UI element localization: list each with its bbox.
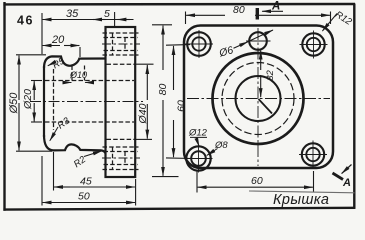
dimension 60 (bottom of face view) <box>197 171 314 193</box>
dimension dia20 (bore) <box>31 81 42 123</box>
svg-text:80: 80 <box>157 84 169 96</box>
dimension 45 <box>54 152 135 191</box>
svg-text:20: 20 <box>51 34 65 46</box>
svg-text:Ø50: Ø50 <box>8 92 20 115</box>
dimension dia40 (between views) <box>136 64 154 139</box>
face view: small hole dia6 <box>249 32 267 50</box>
face view: hidden hub circle dia40 <box>222 63 294 135</box>
side view: bottom outline with R3 corner and R2 groove <box>44 135 106 154</box>
radial hole dia 10 hidden lines <box>72 66 85 81</box>
face view: bore circle dia20 <box>236 76 281 121</box>
dimension 50 (length) <box>42 156 136 206</box>
face view: boss circle <box>213 53 304 144</box>
caption rule line <box>249 191 355 193</box>
side view: body outline <box>44 56 106 68</box>
svg-text:Ø40: Ø40 <box>137 103 149 124</box>
dimension 35 <box>42 13 134 54</box>
face view: plate centerlines <box>187 28 330 166</box>
svg-text:Ø20: Ø20 <box>22 89 34 110</box>
corner hole bottom-right <box>299 141 327 169</box>
flange bottom hole hidden lines <box>103 147 139 170</box>
svg-text:5: 5 <box>104 8 110 20</box>
svg-text:80: 80 <box>233 4 245 16</box>
svg-text:60: 60 <box>251 175 263 187</box>
dimension 32 <box>260 51 262 98</box>
view direction arrow A (bottom right) <box>333 173 344 180</box>
bore hidden lines dia 20 <box>45 81 134 123</box>
section plane marker A (top) <box>256 8 259 20</box>
corner hole bottom-left <box>185 145 213 173</box>
dimension 20 (top) <box>43 46 80 58</box>
svg-text:Ø10: Ø10 <box>69 70 87 80</box>
svg-text:60: 60 <box>176 100 188 112</box>
corner hole top-right <box>300 31 328 59</box>
svg-text:Крышка: Крышка <box>273 192 329 208</box>
svg-text:45: 45 <box>80 176 92 188</box>
svg-text:46: 46 <box>17 14 34 28</box>
dimension dia50 <box>16 55 52 151</box>
internal step hidden line <box>53 69 55 130</box>
svg-text:Ø12: Ø12 <box>188 128 208 139</box>
svg-text:A: A <box>342 177 351 189</box>
dimension 80 (top of face view) <box>186 12 331 25</box>
dimension 60 (hole spacing vertical) <box>166 45 193 159</box>
side view: flange rectangle <box>106 27 136 177</box>
svg-text:32: 32 <box>265 70 276 81</box>
side view: center axis line <box>30 101 143 103</box>
side view: left face edge <box>43 66 45 137</box>
flange top hole centerline <box>102 43 140 45</box>
flange bottom hole centerline <box>102 157 140 159</box>
svg-text:35: 35 <box>66 8 79 20</box>
corner hole top-left <box>185 30 213 58</box>
flange top hole hidden lines (dia12 counterbore, dia8 hole) <box>103 33 139 55</box>
svg-text:A: A <box>271 1 280 13</box>
dimension 80 (plate height, between views) <box>152 25 179 177</box>
dimension 5 <box>115 12 130 26</box>
flange hidden lines: hub diameter 40 <box>107 64 135 139</box>
face view: plate with rounded corners <box>184 26 333 169</box>
radius mark in bore <box>259 99 273 114</box>
svg-text:50: 50 <box>78 191 90 203</box>
